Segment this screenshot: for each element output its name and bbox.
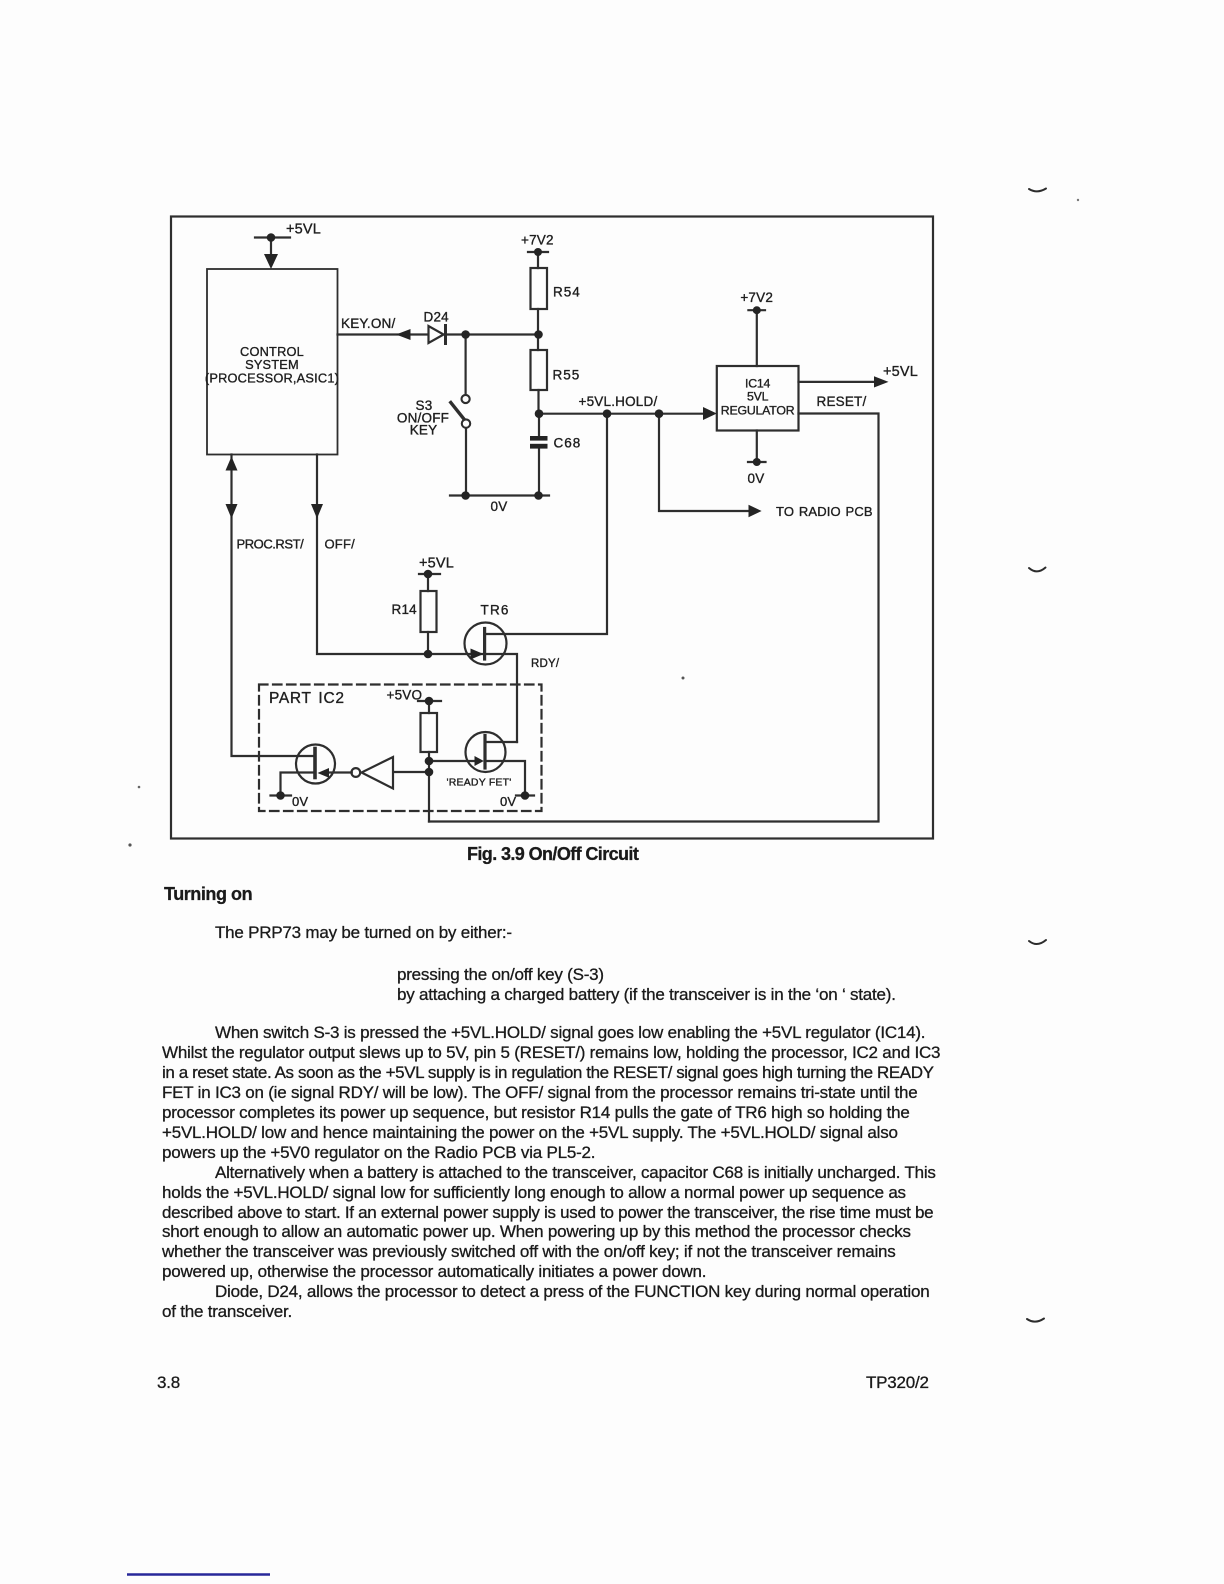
arrow OFF down — [311, 504, 323, 519]
PART IC2 dashed box — [259, 685, 542, 812]
0V rail under switch — [450, 494, 549, 496]
wire R14 to gate node — [427, 632, 429, 654]
svg-text:OFF/: OFF/ — [325, 537, 356, 552]
node TR6 drain column — [603, 409, 612, 418]
READY FET source wire to 0V — [485, 761, 534, 796]
switch S3 lever — [451, 403, 465, 420]
svg-text:RDY/: RDY/ — [531, 658, 560, 670]
node +7V2 right — [753, 306, 761, 314]
READY FET drain wire — [485, 741, 517, 743]
svg-text:R54: R54 — [553, 285, 581, 300]
wire +5VL output — [799, 381, 877, 383]
arrow KEY.ON/ — [396, 329, 411, 340]
svg-text:'READY FET': 'READY FET' — [447, 777, 512, 789]
arrow left transistor — [318, 768, 330, 778]
node +7V2 left — [534, 248, 542, 256]
+7V2 rail right — [748, 310, 765, 366]
wire RESET/ — [429, 414, 879, 822]
schematic frame — [171, 217, 933, 839]
inverter triangle — [362, 757, 394, 789]
caption Fig 3.9 — [467, 845, 638, 865]
svg-text:+7V2: +7V2 — [521, 233, 554, 248]
capacitor C68 plates — [530, 436, 548, 441]
svg-text:+5VL.HOLD/: +5VL.HOLD/ — [579, 394, 658, 409]
svg-text:5VL: 5VL — [747, 390, 769, 404]
inverter bubble — [351, 768, 360, 777]
node TR6 gate — [424, 650, 433, 659]
wire R54 to junction — [537, 309, 539, 350]
+5VL top-left power rail — [255, 238, 290, 257]
wire TO RADIO PCB — [659, 414, 750, 511]
svg-text:KEY: KEY — [410, 423, 438, 438]
+5VO rail — [418, 701, 441, 713]
speck — [1077, 199, 1079, 201]
capacitor C68 bottom wire — [538, 449, 540, 496]
switch S3 wire bottom — [465, 428, 467, 496]
arrow into control box — [264, 254, 278, 269]
wire OFF/ — [317, 455, 485, 655]
svg-text:0V: 0V — [292, 794, 308, 809]
intro line — [215, 923, 512, 943]
node IC14 0V — [753, 458, 761, 466]
arrow READY FET gate — [475, 756, 484, 766]
node READY FET 0V — [521, 791, 530, 800]
paragraph 1 — [162, 1023, 940, 1322]
resistor R14 — [421, 591, 437, 632]
TR6 drain wire to +5VL.HOLD — [485, 414, 607, 634]
speck — [138, 786, 141, 789]
resistor R55 — [531, 350, 548, 390]
wire IC14 0V — [748, 431, 766, 463]
wire KEY.ON/ — [338, 333, 429, 335]
node C68 0V — [534, 491, 543, 500]
svg-text:REGULATOR: REGULATOR — [721, 404, 795, 418]
svg-text:TR6: TR6 — [481, 603, 510, 618]
node +5VO — [425, 697, 434, 706]
switch S3 contact top — [462, 395, 470, 403]
arrow +5VL output — [874, 376, 889, 387]
svg-text:(PROCESSOR,ASIC1): (PROCESSOR,ASIC1) — [205, 371, 339, 386]
svg-text:0V: 0V — [500, 794, 516, 809]
transistor TR6 — [465, 623, 507, 665]
control system box — [207, 269, 338, 455]
wire +5VL.HOLD/ to IC14 — [539, 413, 705, 415]
svg-text:IC14: IC14 — [745, 377, 771, 391]
transistor IC2 (left) — [296, 745, 335, 784]
node R54/R55 — [534, 330, 543, 339]
TR6 source wire RDY/ — [487, 654, 517, 742]
resistor R54 — [531, 268, 548, 309]
svg-text:+5VO: +5VO — [387, 688, 423, 703]
sub lines — [397, 965, 604, 985]
footer — [157, 1373, 180, 1393]
svg-text:RESET/: RESET/ — [817, 394, 867, 409]
svg-text:+7V2: +7V2 — [740, 290, 773, 305]
node +5VL top — [267, 233, 276, 242]
binder mark 2 — [1029, 568, 1046, 572]
diode D24 — [429, 326, 444, 343]
svg-text:+5VL: +5VL — [883, 364, 918, 380]
svg-text:R55: R55 — [553, 368, 581, 383]
arrow PROC.RST down — [226, 504, 238, 519]
svg-text:PROC.RST/: PROC.RST/ — [237, 537, 305, 552]
resistor (IC2 pull-up) — [421, 713, 438, 752]
+7V2 rail left — [528, 252, 548, 268]
wire diode to R54/R55 junction — [446, 333, 540, 335]
heading Turning on — [164, 885, 252, 905]
READY FET gate wire — [429, 760, 476, 762]
+5VL rail at R14 — [419, 574, 440, 591]
node TO RADIO PCB column — [655, 409, 664, 418]
node S3 0V — [461, 491, 470, 500]
blue pen line bottom — [127, 1573, 270, 1575]
node inverter input — [425, 768, 434, 777]
inverter output wire — [329, 771, 352, 773]
left transistor source wire to 0V — [271, 773, 316, 796]
svg-text:TO RADIO PCB: TO RADIO PCB — [776, 504, 873, 519]
binder mark 3 — [1029, 940, 1046, 944]
inverter input wire — [393, 771, 429, 773]
node left 0V — [276, 791, 285, 800]
wire resistor to node — [428, 752, 430, 822]
switch S3 wire top — [465, 335, 467, 396]
svg-text:D24: D24 — [424, 310, 450, 325]
node inverter/gate top — [425, 757, 434, 766]
arrow TR6 gate — [471, 649, 484, 660]
binder mark 4 — [1027, 1319, 1044, 1322]
svg-text:R14: R14 — [392, 602, 418, 617]
IC14 regulator box — [717, 366, 799, 431]
node +5VL R14 — [424, 570, 433, 579]
arrow TO RADIO PCB — [749, 505, 762, 518]
svg-text:KEY.ON/: KEY.ON/ — [341, 316, 395, 331]
svg-text:0V: 0V — [491, 499, 508, 514]
node +5VL.HOLD — [535, 409, 544, 418]
arrow PROC.RST up — [226, 457, 238, 471]
switch S3 contact bottom — [462, 419, 470, 427]
wire R55 to +5VL.HOLD node — [537, 390, 539, 414]
svg-text:0V: 0V — [748, 471, 765, 486]
arrow into IC14 — [703, 407, 717, 420]
wire PROC.RST/ — [232, 455, 316, 757]
svg-text:+5VL: +5VL — [286, 222, 321, 238]
svg-text:C68: C68 — [554, 436, 582, 451]
capacitor C68 top wire — [538, 414, 540, 436]
svg-text:PART IC2: PART IC2 — [269, 690, 345, 707]
node D24/S3 — [461, 330, 470, 339]
binder mark 1 — [1029, 189, 1046, 192]
svg-text:+5VL: +5VL — [419, 556, 454, 572]
transistor READY FET — [466, 732, 506, 772]
